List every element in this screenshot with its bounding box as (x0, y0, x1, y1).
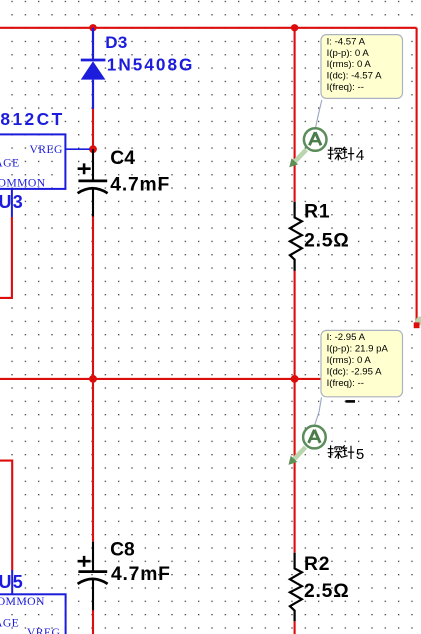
wire C8 bottom segment (92, 610, 94, 634)
probe 4 circle (304, 128, 327, 151)
junction node C4 top (89, 145, 97, 153)
capacitor C8 flat plate (78, 570, 107, 573)
svg-text:I(p-p): 0 A: I(p-p): 0 A (327, 48, 370, 59)
svg-text:VREG: VREG (27, 626, 61, 634)
capacitor C4 top lead (92, 149, 94, 180)
U5 pin stub (blue) (11, 570, 13, 594)
capacitor C8 top lead (92, 542, 94, 571)
svg-text:U3: U3 (0, 192, 24, 212)
svg-text:D3: D3 (105, 33, 128, 52)
wire R1 top segment (294, 28, 296, 202)
U3 pin2 stub (blue) (11, 189, 13, 217)
wire C4 node down to C8 (92, 379, 94, 542)
capacitor C4 bottom lead (92, 188, 94, 216)
svg-text:I(rms): 0 A: I(rms): 0 A (327, 59, 372, 70)
probe tooltip 1 box (321, 35, 403, 99)
probe 5 arrow shaft (293, 447, 306, 460)
wire top horizontal bus (0, 27, 417, 29)
svg-text:VOLTAGE: VOLTAGE (0, 156, 20, 169)
capacitor C4 curved plate (78, 188, 108, 193)
svg-text:4.7mF: 4.7mF (111, 564, 171, 585)
svg-text:VREG: VREG (29, 143, 63, 156)
capacitor C8 curved plate (78, 579, 108, 584)
svg-text:C8: C8 (110, 539, 135, 560)
svg-text:I: -2.95 A: I: -2.95 A (327, 332, 366, 343)
svg-text:R1: R1 (304, 202, 330, 223)
stray minus mark below tooltip 2 (346, 400, 355, 403)
svg-text:VOLTAGE: VOLTAGE (0, 616, 19, 629)
wire R2 bottom segment (294, 621, 296, 634)
svg-text:COMMON: COMMON (0, 176, 46, 189)
svg-text:4.7mF: 4.7mF (110, 175, 170, 196)
probe tooltip leader line 1 (316, 100, 322, 127)
capacitor C8 plus sign (78, 556, 91, 567)
svg-text:R2: R2 (304, 554, 330, 575)
svg-text:I(p-p): 21.9 pA: I(p-p): 21.9 pA (327, 344, 389, 355)
probe 5 circle (303, 426, 326, 449)
svg-text:I(dc): -2.95 A: I(dc): -2.95 A (327, 366, 383, 377)
junction node bottom bus left (89, 375, 97, 383)
resistor R2 body (290, 553, 302, 622)
svg-text:I(freq): --: I(freq): -- (327, 378, 364, 389)
capacitor C4 flat plate (78, 180, 107, 183)
wire U3 pin2 L-shape to left edge (0, 217, 12, 298)
svg-text:I(rms): 0 A: I(rms): 0 A (327, 355, 372, 366)
probe arrow fragment at right edge (416, 317, 421, 326)
junction node bottom bus R branch (291, 375, 299, 383)
wire right vertical branch (416, 28, 418, 324)
diode D3 cathode lead (blue) (92, 28, 94, 59)
resistor R1 body (290, 202, 302, 271)
svg-text:1N5408G: 1N5408G (107, 54, 195, 74)
svg-text:U5: U5 (0, 572, 24, 592)
probe 4 letter A (309, 132, 321, 145)
diode D3 triangle (81, 61, 106, 79)
probe 4 arrowhead (289, 158, 298, 167)
diode D3 cathode bar (81, 59, 106, 62)
svg-text:C4: C4 (110, 148, 135, 169)
probe 5 letter A (309, 430, 321, 443)
wire R1 bottom to bottom bus (294, 271, 296, 379)
probe tooltip leader line 2 (315, 397, 322, 424)
svg-text:MC7812CT: MC7812CT (0, 109, 65, 129)
svg-text:2.5Ω: 2.5Ω (304, 230, 349, 251)
svg-text:2.5Ω: 2.5Ω (304, 581, 349, 602)
U3 pin VREG stub (65, 148, 90, 150)
svg-text:4: 4 (356, 147, 364, 164)
label probe 5 (tanzhen5) (328, 445, 355, 459)
wire bottom horizontal bus (0, 378, 400, 380)
svg-text:I(dc): -4.57 A: I(dc): -4.57 A (327, 71, 383, 82)
wire C4 bottom segment (92, 216, 94, 379)
node right wire endpoint (414, 322, 420, 328)
junction node at R1 branch (291, 24, 298, 31)
probe tooltip 2 box (321, 330, 403, 396)
capacitor C8 bottom lead (92, 579, 94, 610)
wire diode anode to C4 node (92, 109, 94, 150)
label probe 4 (tanzhen4) (328, 147, 355, 161)
voltage regulator U3 box (0, 134, 65, 189)
svg-text:I(freq): --: I(freq): -- (327, 82, 364, 93)
wire bottom bus to R2 (294, 379, 296, 553)
voltage regulator U5 box (0, 594, 66, 634)
svg-text:I: -4.57 A: I: -4.57 A (327, 36, 366, 47)
probe 5 arrowhead (289, 456, 298, 465)
svg-text:5: 5 (356, 446, 364, 463)
svg-text:COMMON: COMMON (0, 595, 45, 608)
probe 4 arrow shaft (294, 150, 307, 163)
junction node at diode branch (89, 24, 96, 31)
wire from left edge to U5 input (0, 461, 12, 571)
diode D3 anode lead (blue) (92, 80, 94, 109)
capacitor C4 plus sign (78, 163, 91, 174)
